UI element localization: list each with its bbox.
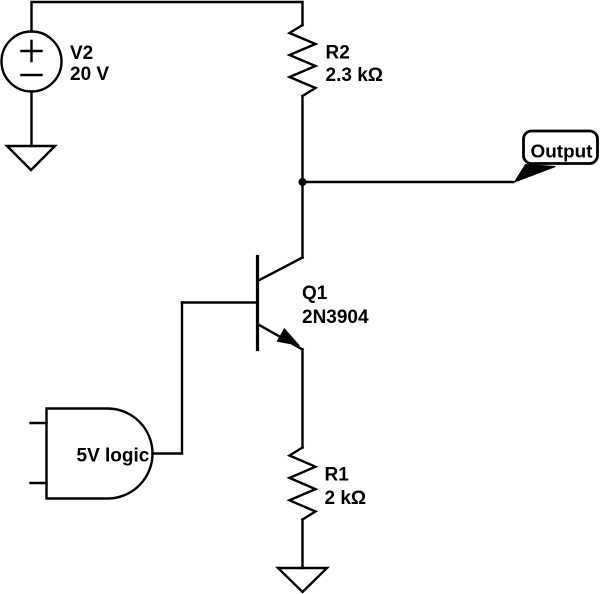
svg-text:2.3 kΩ: 2.3 kΩ — [326, 65, 384, 86]
wire emitter down to R1 — [301, 350, 303, 448]
resistor R2 zigzag — [290, 25, 316, 96]
V2 minus sign — [22, 74, 42, 76]
svg-text:20 V: 20 V — [70, 64, 109, 85]
wire top rail from V2 to R2 — [32, 2, 303, 32]
ground under V2 — [7, 146, 55, 170]
wire base from gate to Q1 — [182, 301, 256, 303]
wire gate output to base — [153, 303, 183, 454]
svg-text:R2: R2 — [326, 43, 350, 64]
svg-text:Q1: Q1 — [302, 283, 328, 304]
Q1 emitter arrowhead — [277, 329, 299, 346]
V2 plus sign — [22, 41, 42, 61]
output flag box — [524, 131, 598, 164]
svg-text:V2: V2 — [70, 43, 93, 64]
wire output net — [303, 181, 514, 183]
svg-text:2N3904: 2N3904 — [302, 307, 369, 328]
transistor Q1 emitter diagonal — [258, 324, 303, 350]
ground under R1 — [278, 568, 327, 592]
wire R2 bottom to node and down to collector — [301, 96, 303, 258]
transistor Q1 collector diagonal — [258, 258, 303, 282]
svg-text:Output: Output — [531, 141, 593, 162]
node junction dot — [299, 178, 307, 186]
AND gate input stub 1 — [31, 422, 47, 424]
voltage source V2 circle — [2, 32, 62, 92]
AND gate 5V logic body — [47, 409, 153, 499]
transistor Q1 base bar — [256, 257, 259, 350]
resistor R1 zigzag — [290, 448, 316, 520]
output flag pointer — [515, 165, 556, 183]
svg-text:2 kΩ: 2 kΩ — [325, 488, 367, 509]
AND gate input stub 2 — [31, 482, 47, 484]
wire R1 bottom to ground — [301, 520, 303, 569]
svg-text:R1: R1 — [325, 465, 350, 486]
wire V2 bottom to ground — [30, 92, 32, 147]
svg-text:5V logic: 5V logic — [77, 446, 150, 467]
